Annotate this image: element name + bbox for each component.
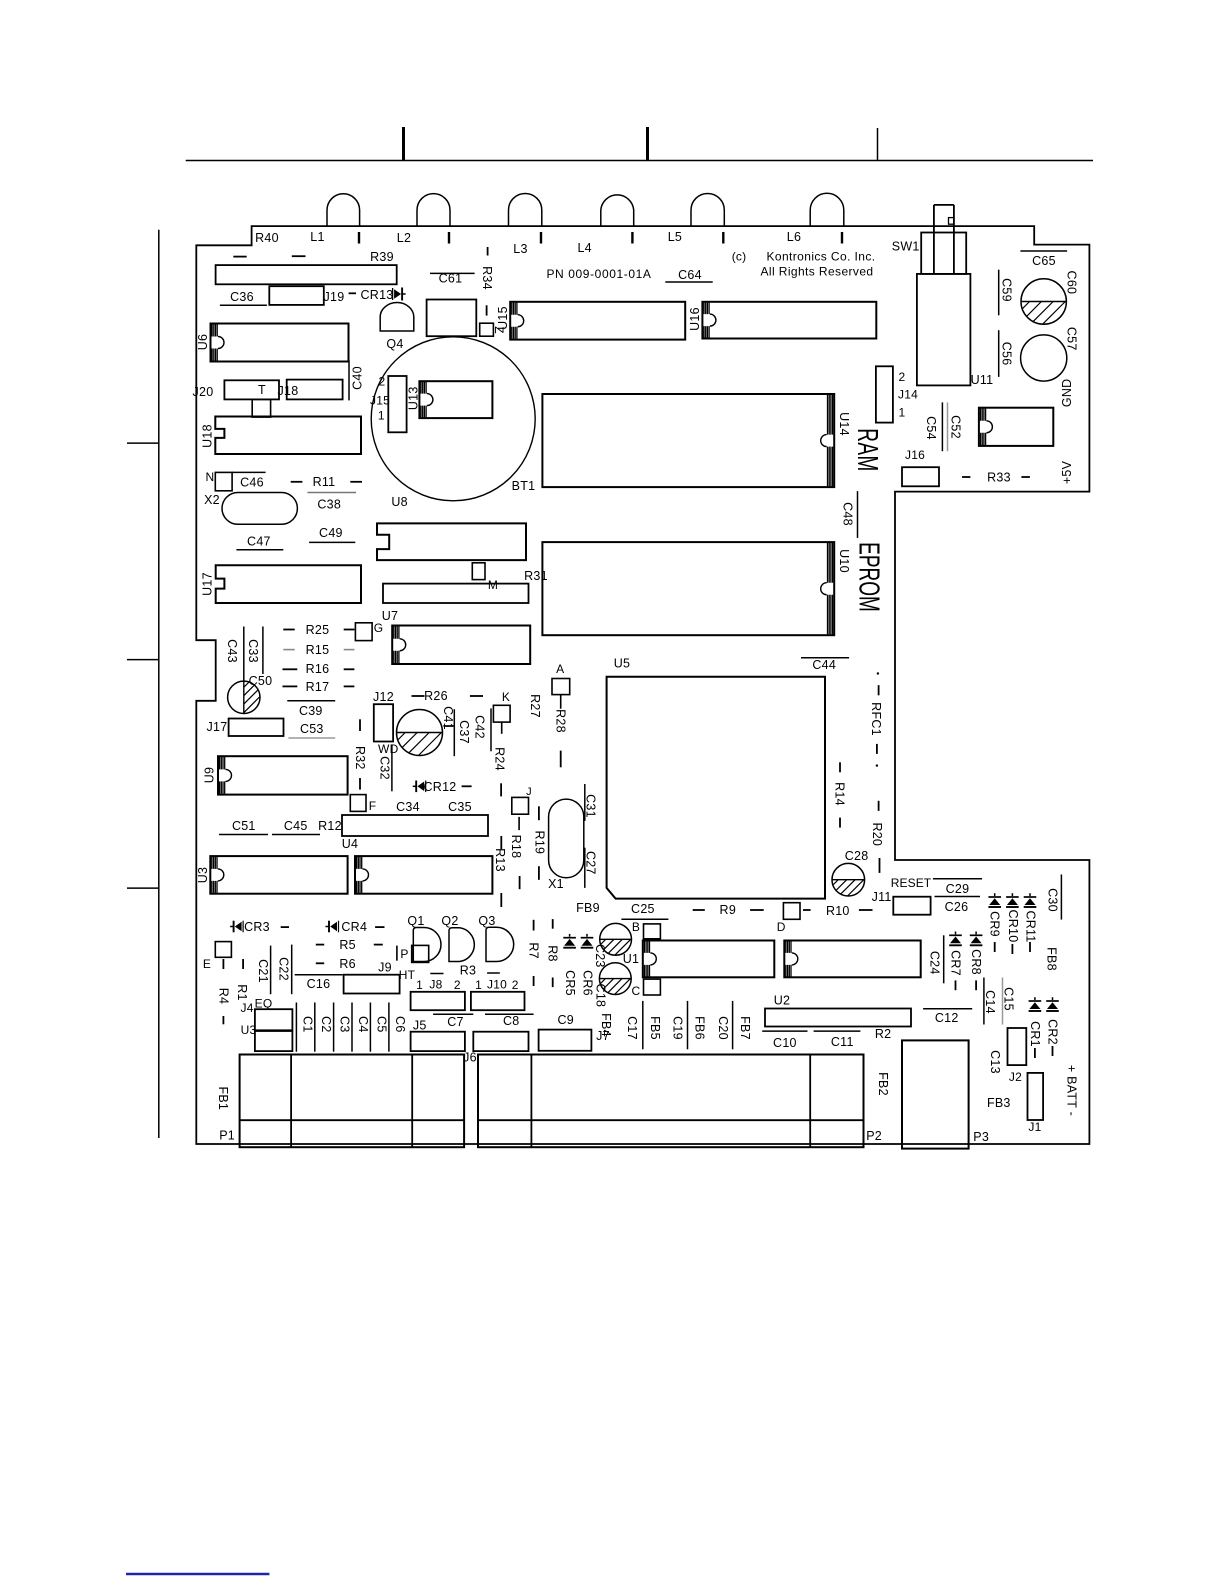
svg-text:R27: R27 xyxy=(528,694,542,718)
capacitor C65 line xyxy=(1020,250,1067,252)
footer link line xyxy=(126,1573,269,1575)
wire C20-FB7 xyxy=(732,1001,734,1049)
capacitor C48 line xyxy=(857,491,859,538)
svg-text:C33: C33 xyxy=(246,639,260,663)
resistor R4 lead xyxy=(222,1016,224,1024)
svg-text:J12: J12 xyxy=(373,690,394,704)
switch SW1 body xyxy=(917,274,971,386)
svg-text:P1: P1 xyxy=(219,1129,235,1143)
svg-text:R33: R33 xyxy=(987,471,1011,485)
svg-text:FB1: FB1 xyxy=(216,1086,230,1110)
svg-text:R11: R11 xyxy=(313,475,336,489)
svg-text:C49: C49 xyxy=(319,526,343,540)
svg-text:C8: C8 xyxy=(503,1014,519,1028)
svg-text:R31: R31 xyxy=(524,569,548,583)
diode CR12 lead xyxy=(462,785,472,787)
resistor R17 lead 2 xyxy=(344,685,355,687)
svg-text:C5: C5 xyxy=(374,1016,388,1032)
jumper J12 body xyxy=(374,704,393,741)
svg-text:U9: U9 xyxy=(203,767,217,783)
svg-text:J8: J8 xyxy=(429,978,442,992)
svg-text:CR4: CR4 xyxy=(341,920,367,934)
connector P1 rail xyxy=(240,1119,465,1121)
capacitor C38 line xyxy=(307,492,356,494)
capacitor C56 line xyxy=(998,330,1000,377)
resistor R16 lead 2 xyxy=(344,668,355,670)
diode CR2 lead xyxy=(1052,1046,1054,1056)
resistor R7 lead 2 xyxy=(533,976,535,986)
svg-text:L5: L5 xyxy=(668,230,682,244)
resistor R20 lead 2 xyxy=(879,858,881,873)
LED L1 dome xyxy=(327,194,360,226)
capacitor C16 line xyxy=(295,974,343,976)
svg-text:J2: J2 xyxy=(1009,1070,1022,1084)
LED L6 tick xyxy=(841,232,843,244)
svg-text:Q4: Q4 xyxy=(386,337,403,351)
svg-text:FB3: FB3 xyxy=(987,1096,1011,1110)
svg-text:U1: U1 xyxy=(623,952,639,966)
svg-text:C14: C14 xyxy=(983,990,997,1014)
capacitor C46 line xyxy=(232,471,266,473)
diode CR1 symbol xyxy=(1034,997,1036,1000)
ruler left tick 3 xyxy=(127,887,159,889)
capacitor C7 line xyxy=(433,1013,473,1015)
resistor R26 lead 1 xyxy=(412,695,425,697)
svg-text:R8: R8 xyxy=(546,945,560,961)
svg-text:C11: C11 xyxy=(831,1035,854,1049)
capacitor C21 line xyxy=(270,946,272,995)
resistor R15 lead 2 xyxy=(344,649,355,651)
capacitor C49 line xyxy=(309,541,355,543)
capacitor C59 line xyxy=(998,270,1000,316)
diode CR7 symbol xyxy=(955,932,957,935)
svg-text:CR1: CR1 xyxy=(1028,1021,1042,1047)
svg-text:X1: X1 xyxy=(548,877,564,891)
svg-text:R5: R5 xyxy=(339,938,355,952)
svg-text:P2: P2 xyxy=(866,1129,882,1143)
svg-text:C60: C60 xyxy=(1064,271,1078,295)
capacitor C64 line xyxy=(665,281,712,283)
svg-text:R7: R7 xyxy=(527,942,541,958)
connector P2 divider 1 xyxy=(530,1055,532,1148)
svg-text:J1: J1 xyxy=(1028,1120,1041,1134)
LED L1 tick xyxy=(358,232,360,244)
diode CR3 symbol xyxy=(230,926,234,928)
diode CR13 symbol xyxy=(392,288,394,300)
svg-text:C12: C12 xyxy=(935,1011,959,1025)
resistor R13 lead 2 xyxy=(500,893,502,907)
svg-text:C15: C15 xyxy=(1001,987,1015,1011)
svg-text:R6: R6 xyxy=(339,957,355,971)
capacitor C4 line xyxy=(351,1003,353,1052)
wire C17-FB5 xyxy=(642,1001,644,1049)
IC above R31 body xyxy=(377,523,526,560)
ruler left tick 2 xyxy=(127,659,159,661)
svg-text:SW1: SW1 xyxy=(892,240,920,254)
svg-text:U16: U16 xyxy=(688,307,702,331)
svg-text:FB7: FB7 xyxy=(738,1016,752,1040)
capacitor C42 line xyxy=(490,708,492,751)
LED L4 tick xyxy=(631,232,633,244)
capacitor C3 line xyxy=(333,1003,335,1052)
node D pad xyxy=(783,903,800,920)
svg-text:C43: C43 xyxy=(225,639,239,663)
node P lead xyxy=(396,946,398,961)
diode CR10 lead xyxy=(1011,944,1013,954)
resistor R5 lead 2 xyxy=(374,944,383,946)
svg-text:FB9: FB9 xyxy=(576,901,600,915)
svg-text:J19: J19 xyxy=(324,290,345,304)
connector J5 body xyxy=(411,1032,465,1051)
svg-text:WD: WD xyxy=(378,742,399,756)
svg-text:C40: C40 xyxy=(351,366,365,390)
svg-text:U3: U3 xyxy=(196,867,210,883)
svg-text:Q2: Q2 xyxy=(441,914,458,928)
svg-text:C36: C36 xyxy=(230,290,254,304)
svg-text:J11: J11 xyxy=(872,890,892,904)
svg-text:Q3: Q3 xyxy=(478,914,495,928)
capacitor C52-C54 line 2 xyxy=(947,402,949,451)
svg-text:C50: C50 xyxy=(249,674,273,688)
capacitor C43 line xyxy=(243,627,245,681)
svg-text:C56: C56 xyxy=(1000,342,1014,366)
svg-text:FB5: FB5 xyxy=(648,1016,662,1040)
connector P2 body xyxy=(478,1055,864,1148)
transistor Q1 outline xyxy=(413,928,441,962)
IC right of C52 xyxy=(979,408,1053,446)
connector P3 body xyxy=(902,1040,969,1148)
svg-text:R40: R40 xyxy=(255,231,279,245)
diode CR7 lead xyxy=(955,980,957,990)
switch SW1 neck xyxy=(934,205,954,274)
diode CR9 symbol xyxy=(994,893,996,896)
svg-text:R34: R34 xyxy=(480,266,494,290)
jumper J20 body xyxy=(224,380,279,399)
svg-text:C31: C31 xyxy=(584,794,598,818)
svg-text:+ BATT -: + BATT - xyxy=(1064,1065,1078,1116)
svg-text:C32: C32 xyxy=(378,756,392,780)
svg-text:C1: C1 xyxy=(300,1016,314,1032)
jumper J17 body xyxy=(229,719,284,737)
svg-text:R24: R24 xyxy=(493,747,507,771)
battery BT1 outline xyxy=(371,337,535,501)
resistor R40 lead 1 xyxy=(233,256,246,258)
svg-text:R25: R25 xyxy=(306,623,330,637)
svg-text:J: J xyxy=(526,786,532,798)
svg-text:C45: C45 xyxy=(284,819,308,833)
resistor R25 lead 2 xyxy=(344,629,355,631)
svg-text:J9: J9 xyxy=(378,961,392,975)
jumper J19 body xyxy=(269,286,324,305)
resistor R12 body xyxy=(342,815,488,836)
svg-text:G: G xyxy=(374,621,384,635)
wire R1 lead xyxy=(242,959,244,969)
svg-text:C24: C24 xyxy=(928,951,942,975)
resistor R24 lead xyxy=(500,783,502,796)
svg-text:C48: C48 xyxy=(841,502,855,526)
resistor R19 lead xyxy=(538,806,540,820)
svg-text:PN 009-0001-01A: PN 009-0001-01A xyxy=(546,267,651,281)
crystal X1 body xyxy=(549,799,584,878)
svg-text:1: 1 xyxy=(416,978,423,992)
svg-text:J17: J17 xyxy=(207,720,228,734)
svg-text:CR5: CR5 xyxy=(563,970,577,996)
svg-text:C47: C47 xyxy=(247,535,271,549)
svg-text:L1: L1 xyxy=(310,230,324,244)
svg-text:R4: R4 xyxy=(216,988,230,1004)
svg-text:U14: U14 xyxy=(837,412,851,436)
svg-text:P: P xyxy=(400,947,408,961)
ruler tick 2 xyxy=(646,127,649,161)
svg-text:J15: J15 xyxy=(370,394,390,408)
svg-text:B: B xyxy=(632,920,640,934)
LED L6 dome xyxy=(810,193,844,226)
resistor R32 lead 1 xyxy=(359,719,361,731)
capacitor C53 line xyxy=(288,737,335,739)
connector J10 body xyxy=(471,992,525,1010)
IC U1 body xyxy=(643,941,775,978)
svg-text:J14: J14 xyxy=(898,388,918,402)
IC U10 body xyxy=(542,542,834,635)
jumper J9 body xyxy=(344,975,400,994)
IC U16 body xyxy=(702,302,876,339)
diode CR11 lead xyxy=(1029,942,1031,952)
svg-text:L4: L4 xyxy=(577,241,591,255)
transistor Q4 outline xyxy=(380,303,414,331)
ruler left tick 1 xyxy=(127,442,159,444)
node C pad xyxy=(644,979,661,995)
diode CR8 lead xyxy=(975,980,977,990)
svg-text:R20: R20 xyxy=(870,822,884,846)
diode CR1 lead xyxy=(1034,1048,1036,1058)
resistor R26 lead 2 xyxy=(470,695,483,697)
resistor R15 lead 1 xyxy=(283,649,294,651)
svg-text:X2: X2 xyxy=(204,493,220,507)
svg-text:C2: C2 xyxy=(319,1016,333,1032)
node F pad xyxy=(350,795,366,812)
svg-text:C44: C44 xyxy=(812,658,836,672)
resistor R3 lead 2 xyxy=(487,972,500,974)
resistor R20 lead 1 xyxy=(878,801,880,811)
capacitor C59-C60 body xyxy=(1021,279,1066,324)
inductor RFC1 lead 1 xyxy=(878,685,880,695)
inductor RFC1 dot 1 xyxy=(877,672,879,674)
resistor R25 lead 1 xyxy=(283,629,294,631)
svg-text:C7: C7 xyxy=(447,1015,463,1029)
svg-text:J10: J10 xyxy=(487,978,507,992)
svg-text:C38: C38 xyxy=(317,498,341,512)
resistor R8 lead 2 xyxy=(552,978,554,988)
svg-text:2: 2 xyxy=(899,370,906,384)
node E pad xyxy=(215,942,231,958)
svg-text:CR11: CR11 xyxy=(1024,910,1038,942)
svg-text:2: 2 xyxy=(454,978,461,992)
capacitor C12 line xyxy=(923,1008,972,1010)
svg-text:R19: R19 xyxy=(533,831,547,855)
svg-text:C27: C27 xyxy=(584,851,598,875)
node G pad xyxy=(355,623,372,641)
svg-text:C54: C54 xyxy=(924,416,938,440)
svg-text:C19: C19 xyxy=(671,1016,685,1040)
capacitor C23 body xyxy=(600,923,632,955)
svg-text:CR8: CR8 xyxy=(969,949,983,975)
resistor R34 lead 2 xyxy=(486,305,488,315)
trimmer C50 body xyxy=(228,681,260,713)
capacitor C31 line xyxy=(584,784,586,821)
svg-text:R17: R17 xyxy=(306,680,330,694)
capacitor C32 line xyxy=(391,744,393,791)
IC U2 body xyxy=(765,1009,911,1027)
node M pad xyxy=(472,563,485,580)
node J pad xyxy=(512,797,529,814)
resistor R7 lead 1 xyxy=(533,920,535,931)
svg-text:U7: U7 xyxy=(382,609,398,623)
capacitor C40 line xyxy=(348,360,350,400)
svg-text:1: 1 xyxy=(475,978,482,992)
svg-text:N: N xyxy=(206,470,215,484)
svg-text:J20: J20 xyxy=(193,385,214,399)
jumper J14 body xyxy=(876,366,893,422)
capacitor C11 line xyxy=(814,1030,861,1032)
connector P1 divider 2 xyxy=(411,1055,413,1148)
svg-text:CR10: CR10 xyxy=(1006,910,1020,943)
capacitor C47 line xyxy=(236,549,283,551)
capacitor C61 body xyxy=(427,300,477,337)
IC U6 body xyxy=(211,324,349,362)
svg-text:R10: R10 xyxy=(826,904,850,918)
transistor Q3 outline xyxy=(486,927,514,961)
resistor R32 lead 2 xyxy=(359,778,361,790)
svg-text:R39: R39 xyxy=(370,250,394,264)
resistor R19 lead 2 xyxy=(538,866,540,880)
resistor R14 lead 2 xyxy=(839,818,841,828)
svg-text:R1: R1 xyxy=(235,984,249,1000)
svg-text:C20: C20 xyxy=(716,1016,730,1040)
switch SW1 tab xyxy=(949,218,954,225)
capacitor C29 line 1 xyxy=(933,878,982,880)
svg-text:C42: C42 xyxy=(473,715,487,739)
resistor R28 lead xyxy=(560,751,562,768)
svg-text:C64: C64 xyxy=(678,268,702,282)
svg-text:BT1: BT1 xyxy=(512,479,536,493)
svg-text:GND: GND xyxy=(1060,379,1074,408)
wire K lead xyxy=(501,722,503,734)
svg-text:C3: C3 xyxy=(338,1016,352,1032)
svg-text:C21: C21 xyxy=(256,959,270,983)
capacitor C61 line xyxy=(430,272,475,274)
resistor R34 lead 1 xyxy=(487,247,489,256)
svg-text:CR2: CR2 xyxy=(1046,1019,1060,1045)
resistor R40 lead 2 xyxy=(292,255,306,257)
diode CR8 symbol xyxy=(975,932,977,935)
resistor R18 lead 2 xyxy=(519,876,521,889)
IC U15 body xyxy=(510,302,685,340)
capacitor C15 line xyxy=(1002,978,1004,1025)
capacitor C13 body xyxy=(1008,1028,1027,1065)
capacitor C37 line xyxy=(453,709,455,756)
svg-text:C39: C39 xyxy=(299,704,323,718)
jumper J1 body xyxy=(1028,1073,1044,1120)
svg-text:U2: U2 xyxy=(774,994,790,1008)
svg-text:R13: R13 xyxy=(493,848,507,872)
resistor R33 lead 1 xyxy=(962,476,970,478)
svg-text:L3: L3 xyxy=(513,242,527,256)
svg-text:EPROM: EPROM xyxy=(852,542,884,612)
svg-text:R26: R26 xyxy=(424,689,448,703)
svg-text:C35: C35 xyxy=(448,800,472,814)
resistor R13 lead 1 xyxy=(500,836,502,849)
node B pad xyxy=(644,924,661,939)
svg-text:L2: L2 xyxy=(397,231,411,245)
svg-text:R32: R32 xyxy=(353,746,367,770)
svg-text:U4: U4 xyxy=(342,837,358,851)
jumper J4 body xyxy=(255,1009,293,1030)
jumper J16 body xyxy=(902,467,939,486)
ruler top line xyxy=(186,160,1093,162)
ruler tick 3 xyxy=(877,128,879,161)
diode CR3 lead xyxy=(281,926,289,928)
IC U3 body xyxy=(210,856,347,894)
capacitor C36 line xyxy=(220,304,267,306)
svg-text:C59: C59 xyxy=(1000,278,1014,302)
capacitor C30 line xyxy=(1060,875,1062,920)
svg-text:C25: C25 xyxy=(631,902,655,916)
IC U5 body xyxy=(607,677,825,899)
svg-text:CR3: CR3 xyxy=(244,920,270,934)
pad below T xyxy=(252,399,270,417)
resistor R31 body xyxy=(383,584,529,603)
svg-text:All Rights Reserved: All Rights Reserved xyxy=(761,265,874,279)
svg-text:R3: R3 xyxy=(460,964,476,978)
IC U18 body xyxy=(215,417,361,455)
capacitor C28 body xyxy=(832,863,865,896)
svg-text:C6: C6 xyxy=(393,1016,407,1032)
capacitor C1 line xyxy=(295,1003,297,1052)
svg-text:2: 2 xyxy=(512,978,519,992)
wire E lead xyxy=(222,959,224,969)
capacitor C39 line xyxy=(287,700,335,702)
svg-text:C46: C46 xyxy=(240,476,264,490)
svg-text:A: A xyxy=(556,662,564,676)
diode CR9 lead xyxy=(994,942,996,952)
svg-text:U5: U5 xyxy=(614,657,630,671)
resistor R10 lead 1 xyxy=(803,909,811,911)
diode CR4 symbol xyxy=(326,926,330,928)
capacitor C29 line 2 xyxy=(935,896,981,898)
svg-text:U11: U11 xyxy=(971,373,994,387)
svg-text:C13: C13 xyxy=(988,1050,1002,1074)
capacitor C46 pad xyxy=(215,472,232,490)
svg-text:R14: R14 xyxy=(832,782,846,806)
svg-text:C37: C37 xyxy=(457,720,471,744)
connector P2 rail xyxy=(478,1119,864,1121)
svg-text:C17: C17 xyxy=(625,1016,639,1040)
capacitor C10 line xyxy=(762,1030,807,1032)
resistor R6 lead 1 xyxy=(316,962,324,964)
svg-text:FB8: FB8 xyxy=(1045,947,1059,971)
svg-text:CR9: CR9 xyxy=(988,911,1002,937)
svg-text:C57: C57 xyxy=(1064,327,1078,351)
inductor RFC1 dot 2 xyxy=(876,764,878,766)
LED L3 dome xyxy=(509,193,542,226)
jumper J18 body xyxy=(287,380,343,400)
board outline xyxy=(196,226,1089,1144)
jumper J11 body xyxy=(893,897,930,915)
resistor R18 lead xyxy=(518,817,520,830)
diode CR2 symbol xyxy=(1052,997,1054,1000)
svg-text:J18: J18 xyxy=(278,384,299,398)
svg-text:R2: R2 xyxy=(875,1027,891,1041)
